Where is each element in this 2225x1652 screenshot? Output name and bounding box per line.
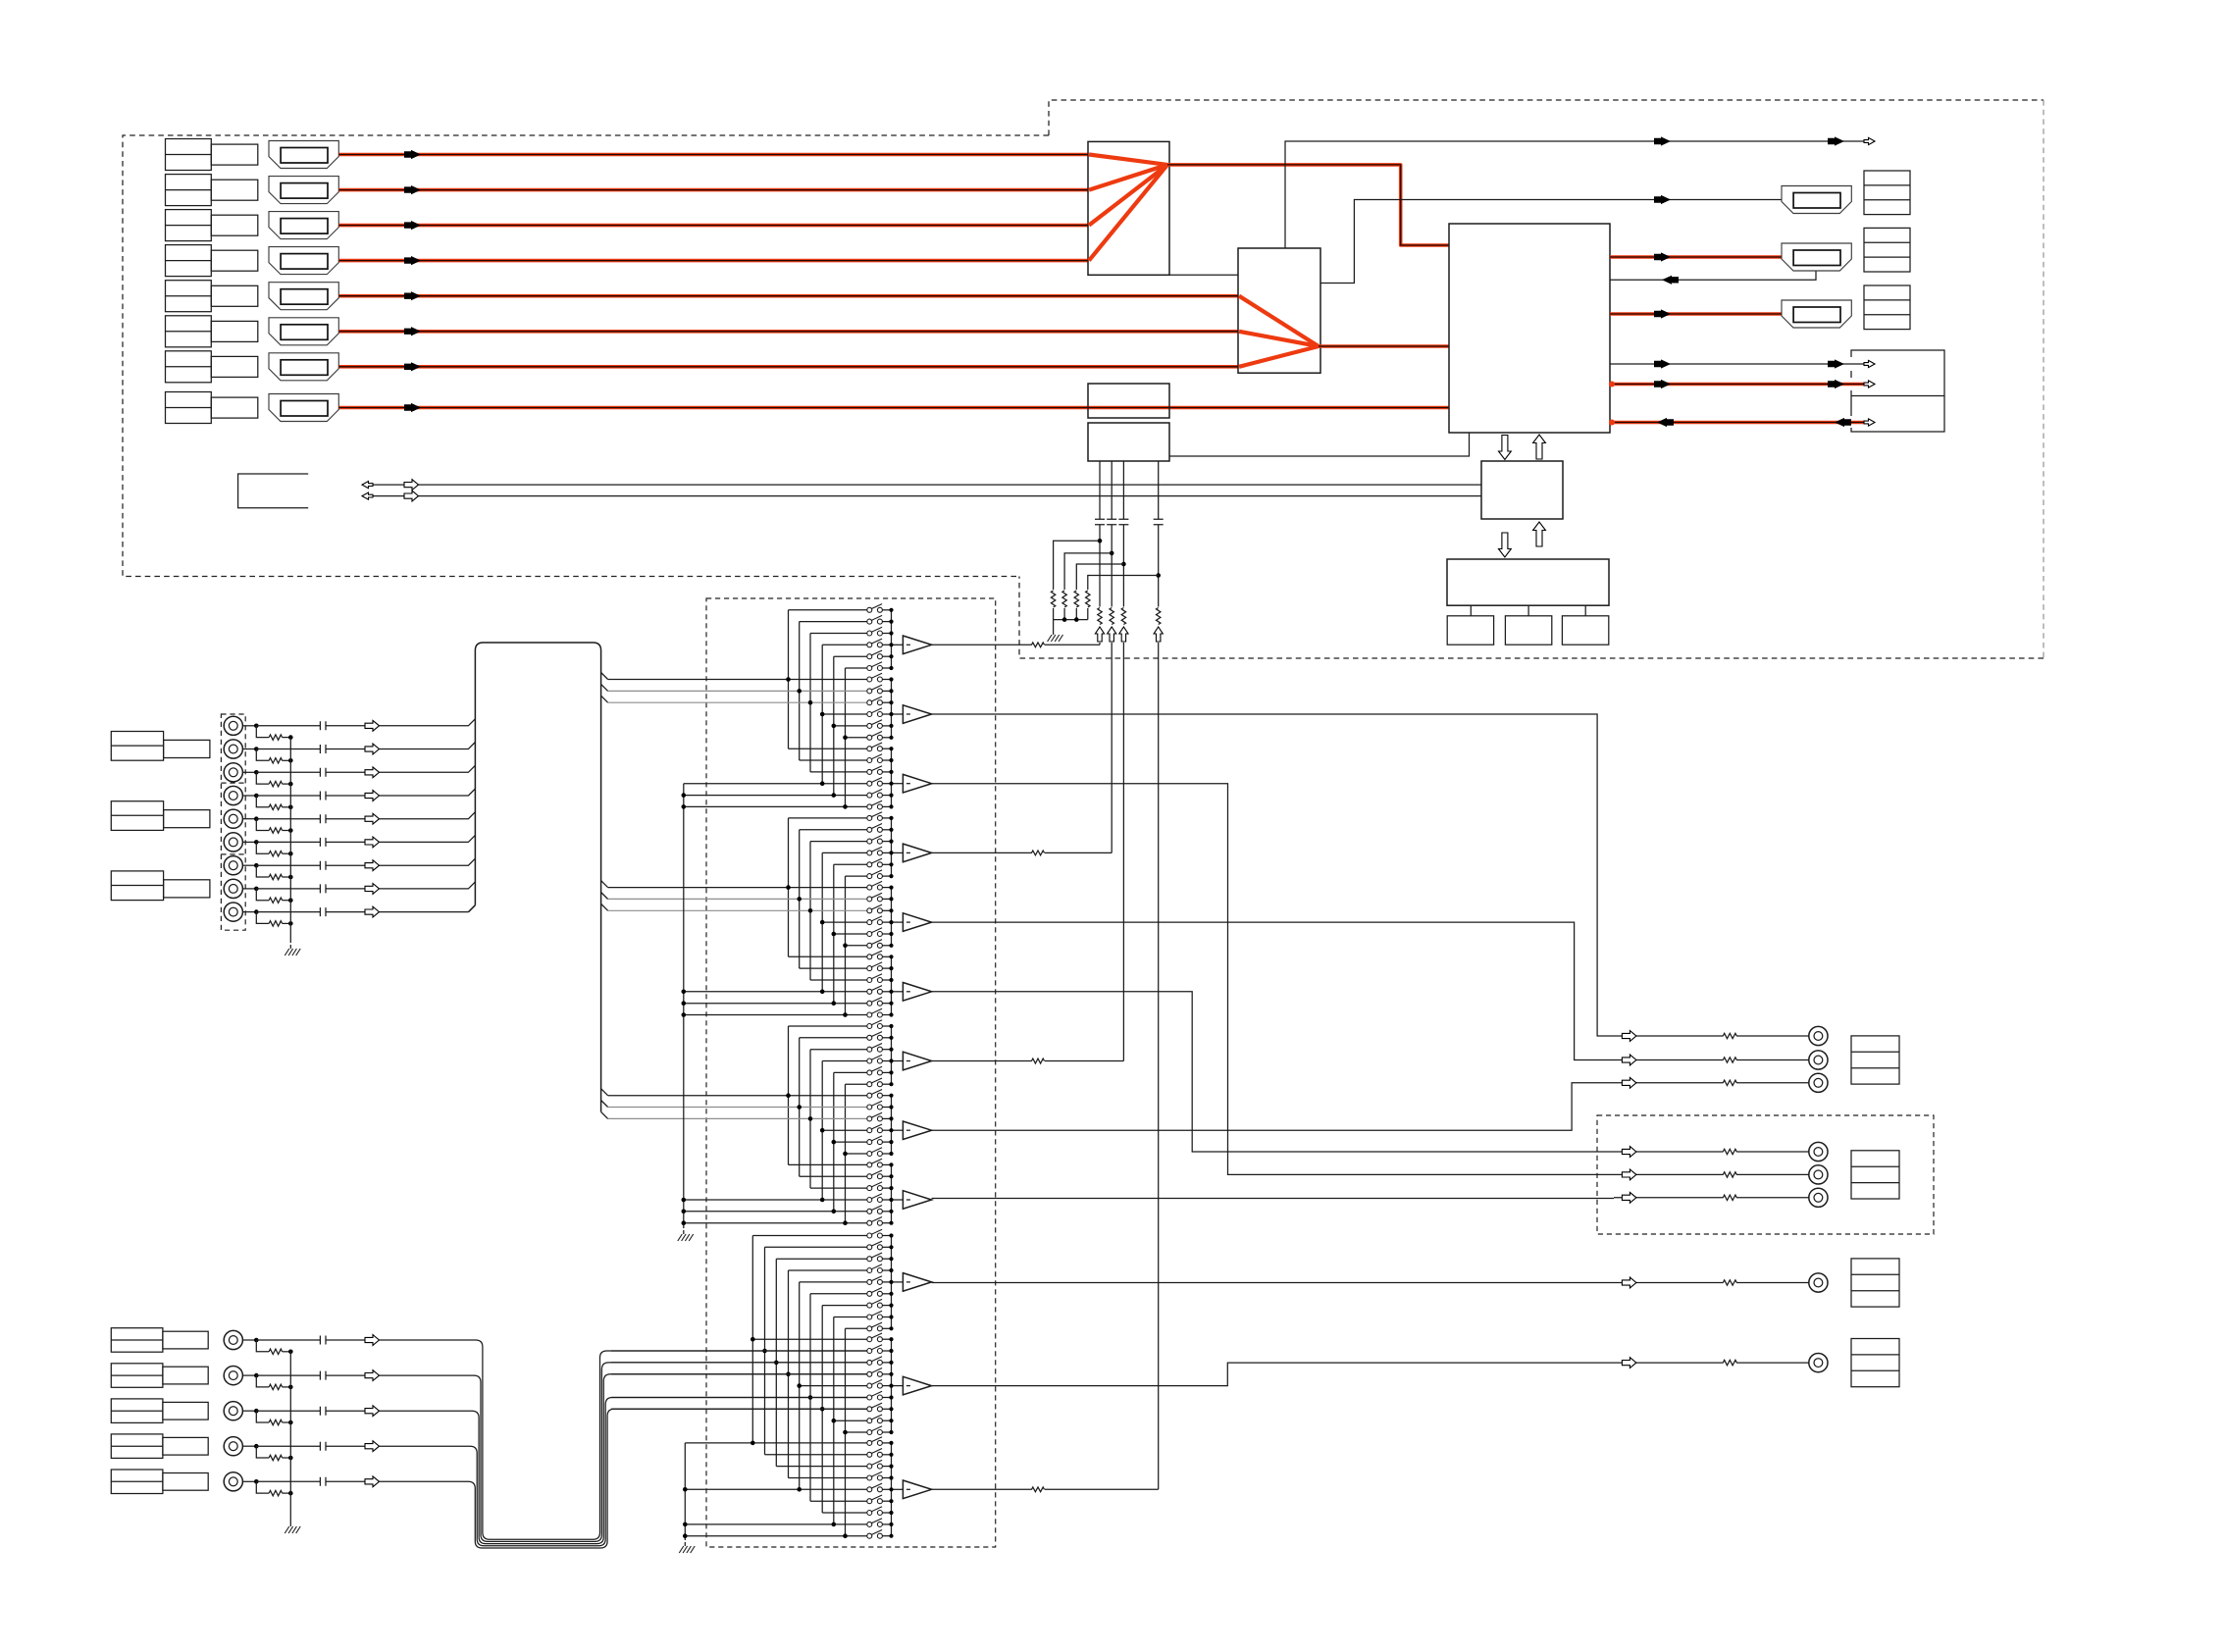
switch SL1-9 bbox=[846, 1327, 867, 1329]
pre out 2 jack bbox=[1809, 1354, 1828, 1372]
wire J9 to node bbox=[242, 911, 256, 913]
termination bus node J11 bbox=[288, 1385, 293, 1390]
signal up arrow 2 bbox=[1108, 627, 1116, 642]
termination branch J9 bbox=[256, 912, 269, 924]
bias tap wire 2 bbox=[1064, 553, 1112, 590]
HDMI input 6 sub label box bbox=[211, 321, 257, 341]
ground bbox=[684, 1542, 686, 1546]
zone output dashed border bbox=[1597, 1115, 1934, 1234]
series resistor R12 bbox=[1098, 608, 1102, 625]
input bus column L-2 bbox=[764, 1247, 766, 1455]
HDMI switch U2 (inputs 5-7) bbox=[1238, 248, 1320, 373]
input bus column S1-3 bbox=[809, 634, 811, 772]
termination branch J11 bbox=[256, 1375, 269, 1387]
RCA jack J4 bbox=[224, 786, 242, 804]
switch S1-6 bbox=[846, 667, 867, 669]
zone out 1 resistor bbox=[1723, 1149, 1736, 1154]
termination resistor J7 bbox=[269, 874, 282, 879]
ground bus junction g3r5 bbox=[682, 793, 687, 798]
rear input 5 sub label box bbox=[163, 1473, 208, 1491]
bus junction L3r5 bbox=[797, 1487, 802, 1492]
HDMI output 3 arrow bbox=[1654, 309, 1671, 318]
input bus column L-3 bbox=[775, 1259, 777, 1466]
switch S7-4 bbox=[822, 1060, 867, 1062]
coupling capacitor C3 bbox=[1118, 519, 1128, 525]
termination bus node J4 bbox=[288, 805, 293, 810]
termination bus node J5 bbox=[288, 828, 293, 833]
level-shift line 1 from control block bbox=[1099, 461, 1101, 607]
termination branch J4 bbox=[256, 796, 269, 807]
junction node 3 bbox=[1121, 562, 1126, 567]
input bus column S2-4 bbox=[821, 852, 823, 991]
HDMI input connector J1 bbox=[269, 141, 338, 169]
zone out label box bbox=[1851, 1151, 1899, 1199]
termination branch J10 bbox=[256, 1340, 269, 1352]
buffer amplifier A8 bbox=[903, 1121, 931, 1140]
switch S6-1 bbox=[789, 955, 867, 957]
ground bus junction g9r6 bbox=[682, 1220, 687, 1225]
termination resistor J5 bbox=[269, 828, 282, 833]
level-shift line 4 from control block bbox=[1158, 461, 1160, 607]
analog input group 2 label box bbox=[111, 801, 163, 831]
HDMI input 7 arrow bbox=[404, 362, 421, 371]
wire rear input 2 routing bbox=[380, 1363, 867, 1542]
switch S9-6 bbox=[684, 1222, 867, 1224]
termination branch J8 bbox=[256, 889, 269, 901]
termination bus node J6 bbox=[288, 852, 293, 856]
HDMI output 3 connector bbox=[1782, 300, 1851, 328]
coupling capacitor J13 bbox=[320, 1442, 326, 1451]
node J12 bbox=[254, 1409, 259, 1414]
line out label box bbox=[1851, 1036, 1899, 1084]
switch S5-4 bbox=[822, 921, 867, 923]
pre out 2 wire bbox=[1614, 1362, 1809, 1364]
wire J4 to node bbox=[242, 795, 256, 797]
input bus column S3-5 bbox=[833, 1072, 835, 1211]
amp 8 output wire to line out C bbox=[932, 1083, 1614, 1130]
input bus column S2-3 bbox=[809, 842, 811, 980]
system MCU bbox=[1481, 461, 1563, 519]
bus junction L2r4 bbox=[786, 1372, 791, 1377]
buffer amplifier wire L3 bbox=[892, 1488, 904, 1490]
main out arrow bbox=[1654, 195, 1671, 204]
HDMI path U1 to main processor bbox=[1167, 165, 1449, 245]
HDMI input 8 arrow bbox=[404, 403, 421, 412]
input bus column L-1 bbox=[751, 1236, 753, 1443]
switch SL1-4 bbox=[789, 1269, 867, 1271]
RCA jack J9 bbox=[224, 903, 242, 921]
switch S8-2 bbox=[608, 1107, 867, 1109]
HDMI input 2 signal wire bbox=[339, 188, 1089, 192]
analog input group 3 label box bbox=[111, 871, 163, 901]
switch S9-4 bbox=[684, 1199, 867, 1201]
termination resistor J3 bbox=[269, 781, 282, 786]
buffer amplifier wire g6 bbox=[892, 991, 904, 993]
termination branch J13 bbox=[256, 1446, 269, 1458]
rear input 2 label box bbox=[111, 1364, 163, 1388]
signal wire J8 bbox=[256, 888, 365, 890]
HDMI input connector J8 bbox=[269, 394, 338, 422]
amp 3 output wire to zone out 2 bbox=[932, 784, 1614, 1175]
bus junction L2r6 bbox=[808, 1395, 813, 1400]
analog input ground bus bbox=[289, 738, 291, 943]
switch SL3-1 bbox=[685, 1442, 867, 1444]
switch SL2-1 bbox=[752, 1338, 867, 1340]
control bus bracket bbox=[238, 474, 309, 508]
switch SL1-3 bbox=[776, 1258, 867, 1260]
coupling capacitor J9 bbox=[320, 907, 326, 916]
signal wire J6 bbox=[256, 841, 365, 843]
input selector switch block bbox=[475, 643, 600, 1111]
bus junction L2r5 bbox=[797, 1383, 802, 1388]
switch S2-5 bbox=[834, 725, 867, 727]
data in arrow 1 bbox=[1657, 418, 1674, 427]
signal wire J13 bbox=[256, 1445, 365, 1447]
coupling capacitor J4 bbox=[320, 792, 326, 800]
HDMI input 2 label box bbox=[166, 175, 212, 206]
coupling capacitor C2 bbox=[1107, 519, 1116, 525]
memory block 2 bbox=[1505, 616, 1551, 645]
node J9 bbox=[254, 909, 259, 914]
signal arrow J3 bbox=[365, 767, 380, 778]
HDMI input connector J5 bbox=[269, 283, 338, 310]
wire U2 to monitor bypass bbox=[1285, 141, 1869, 248]
termination resistor J4 bbox=[269, 804, 282, 809]
coupling capacitor J2 bbox=[320, 745, 326, 753]
termination bus node J3 bbox=[288, 782, 293, 787]
pre out 1 label box bbox=[1851, 1259, 1899, 1307]
switch S6-4 bbox=[684, 991, 867, 993]
termination resistor J9 bbox=[269, 921, 282, 926]
ground bus junction g6r4 bbox=[682, 990, 687, 995]
switch S5-3 bbox=[608, 909, 867, 911]
memory block 3 bbox=[1562, 616, 1608, 645]
selector output stubs bbox=[601, 673, 608, 1119]
buffer amplifier wire g3 bbox=[892, 783, 904, 785]
HDMI input 3 sub label box bbox=[211, 215, 257, 235]
line out L resistor bbox=[1723, 1033, 1736, 1038]
control bus line 2 bbox=[373, 495, 1481, 497]
aux output arrow 2 bbox=[1828, 359, 1844, 368]
amp 7 output wire to level shifter bbox=[932, 1060, 1124, 1062]
input bus column S3-4 bbox=[821, 1061, 823, 1201]
input bus column S2-6 bbox=[845, 876, 847, 1014]
input bus column S2-2 bbox=[799, 830, 801, 968]
wire J12 to node bbox=[242, 1410, 256, 1412]
RCA jack J5 bbox=[224, 809, 242, 828]
level-shift line 2 lower segment bbox=[1111, 643, 1112, 852]
input bus column L-9 bbox=[845, 1328, 847, 1535]
wire J6 to node bbox=[242, 841, 256, 843]
bus junction g3r6 bbox=[843, 804, 848, 809]
input bus column S3-6 bbox=[845, 1084, 847, 1223]
signal arrow J1 bbox=[365, 720, 380, 731]
resistor bbox=[1032, 1058, 1045, 1063]
bus arrow DSP to MCU up bbox=[1533, 522, 1546, 546]
switch SL1-5 bbox=[800, 1281, 867, 1283]
pull-down resistor R31 bbox=[1074, 591, 1078, 607]
RCA jack J8 bbox=[224, 879, 242, 898]
switch S9-5 bbox=[684, 1211, 867, 1213]
level-shift line 1 lower segment bbox=[1099, 643, 1101, 645]
zone out 3 arrow bbox=[1622, 1192, 1636, 1203]
resistor bbox=[1032, 643, 1045, 647]
wire J2 to selector bbox=[380, 743, 476, 749]
level-shift line 3 lower segment bbox=[1122, 643, 1124, 1061]
bus junction g8r2 bbox=[797, 1105, 802, 1110]
bus junction L2r7 bbox=[820, 1407, 825, 1412]
wire J3 to node bbox=[242, 771, 256, 773]
HDMI control interface block bbox=[1088, 423, 1169, 461]
switch SL3-3 bbox=[776, 1466, 867, 1468]
input bus column S3-1 bbox=[788, 1026, 790, 1164]
bus junction g8r1 bbox=[786, 1093, 791, 1098]
HDMI output 2 arrow bbox=[1654, 252, 1671, 261]
HDMI input connector J4 bbox=[269, 247, 338, 275]
input bus column S2-1 bbox=[788, 818, 790, 956]
termination resistor J1 bbox=[269, 735, 282, 740]
HDMI input 6 signal wire bbox=[339, 330, 1239, 334]
switch S2-2 bbox=[608, 690, 867, 692]
bus junction g3r4 bbox=[820, 781, 825, 786]
rear input 2 sub label box bbox=[163, 1367, 208, 1384]
bus junction g2r3 bbox=[808, 700, 813, 705]
buffer amplifier wire g1 bbox=[892, 644, 904, 645]
node J11 bbox=[254, 1373, 259, 1378]
level-shift line 3 from control block bbox=[1122, 461, 1124, 607]
switch S4-2 bbox=[800, 829, 867, 831]
line out R jack bbox=[1809, 1051, 1828, 1069]
HDMI output 2 wire bbox=[1610, 255, 1782, 259]
HDMI output 1 label box bbox=[1864, 171, 1910, 215]
line out R arrow bbox=[1622, 1055, 1636, 1065]
termination bus node J2 bbox=[288, 758, 293, 763]
HDMI input 3 signal wire bbox=[339, 224, 1089, 228]
HDMI input 1 arrow bbox=[404, 150, 421, 159]
ground bbox=[683, 1230, 685, 1234]
output bus g8 bbox=[891, 1096, 893, 1154]
switch S3-5 bbox=[684, 795, 867, 797]
wire J7 to selector bbox=[380, 858, 476, 865]
switch S9-3 bbox=[810, 1187, 867, 1189]
termination bus node J9 bbox=[288, 921, 293, 926]
signal up arrow 1 bbox=[1095, 627, 1104, 642]
termination resistor J2 bbox=[269, 758, 282, 763]
switch S2-6 bbox=[846, 737, 867, 739]
zone out 3 resistor bbox=[1723, 1195, 1736, 1200]
HDMI input 4 arrow bbox=[404, 256, 421, 265]
RCA jack J11 bbox=[224, 1367, 242, 1385]
termination resistor J14 bbox=[269, 1490, 282, 1495]
bus junction L2r9 bbox=[843, 1430, 848, 1435]
line out L wire bbox=[1614, 1035, 1809, 1037]
signal arrow J13 bbox=[365, 1441, 380, 1452]
switch SL2-9 bbox=[846, 1431, 867, 1433]
node J8 bbox=[254, 887, 259, 892]
buffer amplifier A1 bbox=[903, 636, 931, 654]
pre out 1 arrow bbox=[1622, 1277, 1636, 1288]
processor aux output wire bbox=[1610, 363, 1869, 365]
junction node 2 bbox=[1110, 551, 1114, 556]
node J13 bbox=[254, 1444, 259, 1449]
series resistor R22 bbox=[1110, 608, 1113, 625]
switch S8-5 bbox=[834, 1141, 867, 1143]
junction node 1 bbox=[1098, 539, 1103, 543]
switch S2-4 bbox=[822, 713, 867, 715]
switch SL2-8 bbox=[834, 1420, 867, 1421]
termination bus node J7 bbox=[288, 875, 293, 880]
HDMI input 5 arrow bbox=[404, 291, 421, 300]
ground bus 2 junction r8 bbox=[683, 1523, 688, 1527]
node J6 bbox=[254, 840, 259, 845]
bus junction g5r6 bbox=[843, 944, 848, 949]
wire J14 to node bbox=[242, 1480, 256, 1482]
bus arrow MCU to DSP down bbox=[1499, 533, 1512, 557]
junction node 4 bbox=[1156, 573, 1161, 578]
wire J4 to selector bbox=[380, 789, 476, 796]
wire J1 to node bbox=[242, 725, 256, 727]
aux output arrow 1 bbox=[1654, 359, 1671, 368]
switch SL3-6 bbox=[810, 1500, 867, 1502]
zone out 3 wire bbox=[1614, 1197, 1809, 1199]
coupling capacitor J11 bbox=[320, 1371, 326, 1380]
amp 2 output wire to line out L bbox=[932, 714, 1614, 1036]
HDMI input 1 label box bbox=[166, 139, 212, 171]
bus junction L2r1 bbox=[750, 1337, 755, 1342]
control bus line 1 left arrow bbox=[362, 482, 373, 489]
input bus column L-5 bbox=[799, 1282, 801, 1489]
input bus column S3-3 bbox=[809, 1050, 811, 1188]
signal up arrow 4 bbox=[1154, 627, 1163, 642]
bus junction g9r5 bbox=[832, 1210, 837, 1214]
processor data out wire bbox=[1610, 383, 1865, 387]
buffer amplifier A9 bbox=[903, 1191, 931, 1210]
output bus g4 bbox=[891, 818, 893, 876]
bus junction g5r1 bbox=[786, 885, 791, 890]
switch SL3-8 bbox=[685, 1523, 867, 1525]
signal wire J1 bbox=[256, 725, 365, 727]
termination bus node J10 bbox=[288, 1350, 293, 1355]
line out C wire bbox=[1614, 1082, 1809, 1084]
bus junction g8r3 bbox=[808, 1116, 813, 1121]
signal arrow J6 bbox=[365, 837, 380, 848]
rear input 3 sub label box bbox=[163, 1402, 208, 1420]
switch S7-5 bbox=[834, 1071, 867, 1073]
input bus column S1-2 bbox=[799, 622, 801, 760]
line out C jack bbox=[1809, 1073, 1828, 1092]
rear input 5 label box bbox=[111, 1470, 163, 1494]
pre out 2 label box bbox=[1851, 1339, 1899, 1387]
zone out 1 jack bbox=[1809, 1142, 1828, 1161]
buffer amplifier wire L2 bbox=[892, 1385, 904, 1387]
bus junction g5r3 bbox=[808, 908, 813, 913]
wire J10 to node bbox=[242, 1339, 256, 1341]
HDMI input 7 sub label box bbox=[211, 356, 257, 377]
termination bus node J14 bbox=[288, 1491, 293, 1496]
bias tap wire 3 bbox=[1076, 564, 1123, 590]
zone out 2 wire bbox=[1614, 1173, 1809, 1175]
signal wire J11 bbox=[256, 1374, 365, 1376]
wire J8 to selector bbox=[380, 882, 476, 889]
bus junction L3r8 bbox=[832, 1523, 837, 1527]
wire U2 to HDMI main out bbox=[1320, 200, 1782, 284]
HDMI input 8 sub label box bbox=[211, 397, 257, 418]
switch S4-6 bbox=[846, 875, 867, 877]
buffer amplifier wire L1 bbox=[892, 1281, 904, 1283]
analog input group 2 sub label box bbox=[164, 810, 210, 828]
termination bus node J8 bbox=[288, 898, 293, 903]
wire J7 to node bbox=[242, 864, 256, 866]
wire J2 to node bbox=[242, 749, 256, 750]
zone out 2 jack bbox=[1809, 1165, 1828, 1184]
HDMI input connector J2 bbox=[269, 177, 338, 204]
RCA jack J13 bbox=[224, 1437, 242, 1456]
HDMI input 7 signal wire bbox=[339, 365, 1239, 369]
HDMI output 2 connector bbox=[1782, 243, 1851, 271]
ground bbox=[1053, 631, 1055, 635]
buffer amplifier wire g7 bbox=[892, 1060, 904, 1062]
signal wire J14 bbox=[256, 1480, 365, 1482]
rear input 1 label box bbox=[111, 1328, 163, 1353]
bus junction g2r2 bbox=[797, 689, 802, 694]
wire rear input 5 routing bbox=[380, 1409, 867, 1548]
signal arrow J12 bbox=[365, 1406, 380, 1417]
data out arrow 1 bbox=[1654, 380, 1671, 388]
signal arrow J4 bbox=[365, 791, 380, 801]
termination resistor J8 bbox=[269, 898, 282, 903]
switch SL1-6 bbox=[810, 1293, 867, 1295]
coupling capacitor C1 bbox=[1095, 519, 1105, 525]
input bus column S2-5 bbox=[833, 864, 835, 1003]
buffer amplifier A6 bbox=[903, 983, 931, 1002]
termination resistor J11 bbox=[269, 1384, 282, 1389]
signal arrow J10 bbox=[365, 1335, 380, 1346]
buffer amplifier A4 bbox=[903, 844, 931, 862]
switch SL2-5 bbox=[800, 1385, 867, 1387]
switch S6-3 bbox=[810, 979, 867, 981]
buffer amplifier A3 bbox=[903, 774, 931, 793]
switch S8-6 bbox=[846, 1153, 867, 1155]
terminal block frame bbox=[1851, 350, 1944, 432]
series resistor R32 bbox=[1121, 608, 1125, 625]
switch SL2-6 bbox=[611, 1397, 867, 1399]
signal arrow J7 bbox=[365, 860, 380, 871]
output bus g6 bbox=[891, 956, 893, 1014]
switch S5-6 bbox=[846, 945, 867, 947]
bypass arrow 2 bbox=[1828, 136, 1844, 145]
RCA jack J6 bbox=[224, 833, 242, 852]
signal arrow J5 bbox=[365, 813, 380, 824]
bus junction g9r4 bbox=[820, 1198, 825, 1203]
line out C arrow bbox=[1622, 1077, 1636, 1088]
input bus column S1-6 bbox=[845, 668, 847, 806]
switch SL3-2 bbox=[765, 1454, 867, 1456]
wire J6 to selector bbox=[380, 835, 476, 842]
wire rear input 3 routing bbox=[380, 1374, 867, 1544]
buffer amplifier AL2 bbox=[903, 1376, 931, 1395]
HDMI input 1 signal wire bbox=[339, 153, 1089, 157]
switch S8-1 bbox=[608, 1095, 867, 1097]
amp 4 output wire to level shifter bbox=[932, 852, 1112, 853]
HDMI input 2 arrow bbox=[404, 185, 421, 194]
termination resistor J6 bbox=[269, 852, 282, 856]
amp 6 output wire to zone out 1 bbox=[932, 992, 1614, 1152]
resistor bbox=[1032, 1487, 1045, 1492]
bus junction g5r4 bbox=[820, 920, 825, 925]
bias bus wire bbox=[1054, 619, 1088, 621]
control bus line 2 left arrow bbox=[362, 492, 373, 499]
node J10 bbox=[254, 1338, 259, 1343]
